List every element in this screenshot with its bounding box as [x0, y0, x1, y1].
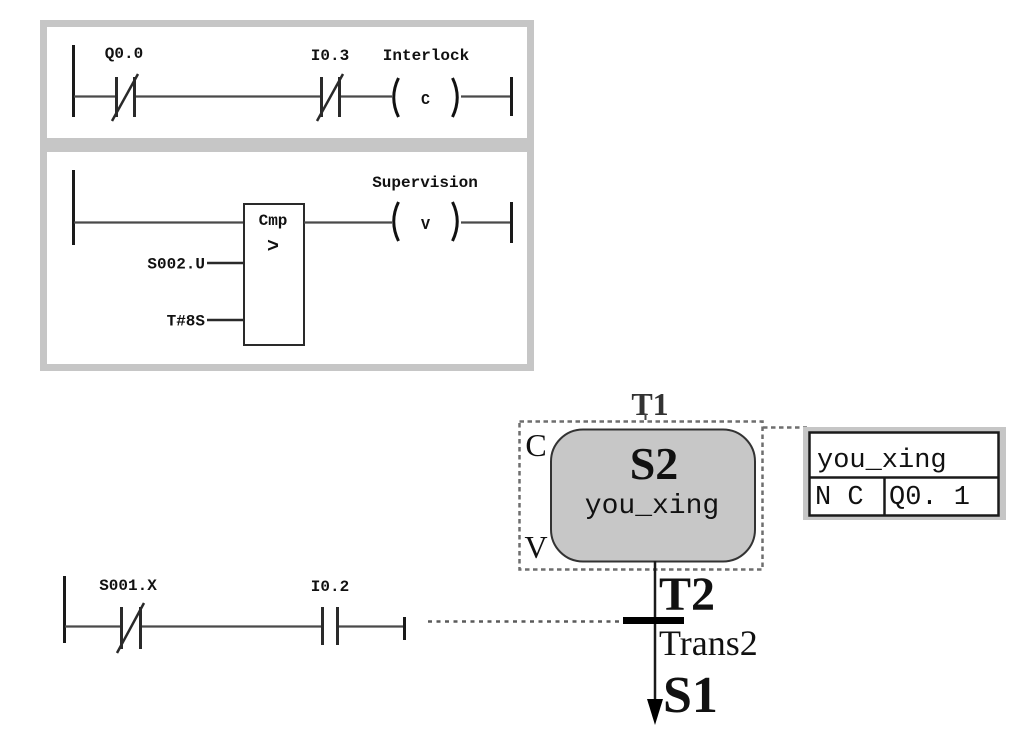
svg-text:V: V [421, 217, 430, 234]
wire [341, 95, 392, 97]
bottom rung left power rail [63, 576, 66, 643]
svg-text:Q0.0: Q0.0 [105, 45, 143, 63]
wire [74, 95, 115, 97]
svg-text:T1: T1 [631, 386, 668, 422]
rung 2 right power rail [510, 202, 513, 243]
svg-text:Q0. 1: Q0. 1 [889, 483, 970, 513]
rung 1 right power rail [510, 77, 513, 116]
network 1 frame [44, 24, 531, 142]
step output line [654, 561, 657, 701]
svg-text:T#8S: T#8S [167, 313, 206, 331]
dashed line from rung to transition [428, 620, 620, 623]
svg-text:I0.2: I0.2 [311, 578, 349, 596]
rung 1 left power rail [72, 45, 75, 117]
svg-text:C: C [421, 92, 430, 109]
action table [810, 433, 999, 516]
svg-text:V: V [524, 529, 547, 565]
svg-text:you_xing: you_xing [817, 446, 947, 476]
wire [142, 625, 321, 627]
network 2 frame [44, 149, 531, 368]
svg-text:Cmp: Cmp [259, 212, 288, 230]
svg-text:Supervision: Supervision [372, 174, 478, 192]
wire [136, 95, 320, 97]
wire [339, 625, 404, 627]
svg-text:you_xing: you_xing [585, 491, 719, 522]
wire [74, 221, 244, 223]
rung end bar [403, 617, 406, 640]
contact I0.3 (NC) [322, 77, 340, 117]
svg-text:N C: N C [815, 483, 864, 513]
wire [461, 221, 510, 223]
svg-text:S001.X: S001.X [99, 577, 157, 595]
contact Q0.0 (NC) [117, 77, 135, 117]
contact S001.X (NC) [122, 607, 141, 649]
svg-text:S2: S2 [630, 438, 679, 489]
arrow to S1 [647, 699, 663, 725]
step S2 selection dashed box [520, 422, 763, 570]
action table gray frame [803, 427, 1006, 520]
svg-text:S1: S1 [663, 667, 718, 724]
rung 2 left power rail [72, 170, 75, 245]
svg-text:I0.3: I0.3 [311, 47, 349, 65]
svg-text:>: > [267, 236, 279, 259]
coil V (Supervision) [394, 202, 399, 241]
comparator Cmp [244, 204, 304, 345]
contact I0.2 (NO) [323, 607, 338, 645]
svg-text:C: C [525, 427, 546, 463]
wire T1 to step [645, 414, 647, 420]
step S2 box [551, 430, 755, 562]
wire [304, 221, 392, 223]
wire [461, 95, 510, 97]
dashed connector to action table [763, 426, 807, 429]
svg-text:S002.U: S002.U [147, 256, 205, 274]
svg-text:Interlock: Interlock [383, 47, 470, 65]
coil C (Interlock) [394, 78, 399, 117]
wire [65, 625, 120, 627]
svg-text:T2: T2 [659, 568, 715, 621]
svg-text:Trans2: Trans2 [659, 623, 758, 663]
transition bar [623, 617, 684, 624]
